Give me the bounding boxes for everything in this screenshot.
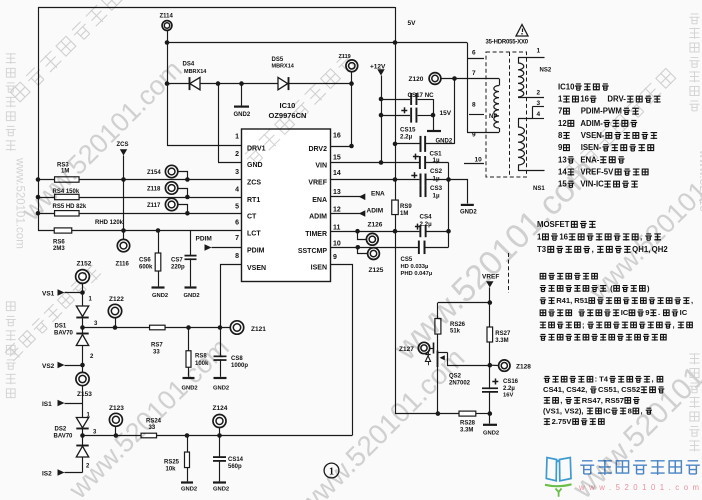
svg-text:1: 1 [558,95,563,104]
svg-text:CS2: CS2 [430,168,443,175]
svg-text:RS57: RS57 [605,396,624,405]
svg-text:CS5: CS5 [401,257,413,263]
svg-text:Z125: Z125 [369,267,384,274]
svg-text:CS15: CS15 [400,127,416,134]
svg-text:RS47,: RS47, [582,396,603,405]
svg-text:RS7: RS7 [151,343,163,349]
svg-text:PDIM-PWM: PDIM-PWM [581,107,622,116]
svg-text:GND2: GND2 [460,209,477,215]
svg-text:1µ: 1µ [433,192,440,199]
svg-text:8: 8 [628,406,632,415]
svg-text:2.2µ: 2.2µ [420,221,433,228]
svg-text:CS42,: CS42, [566,385,587,394]
svg-text:RS25: RS25 [164,459,180,465]
svg-text:T4: T4 [599,375,609,384]
svg-text:RHD 120k: RHD 120k [95,220,124,226]
svg-text:3.3M: 3.3M [460,428,473,434]
svg-text:8: 8 [558,131,563,140]
svg-text:2.2µ: 2.2µ [400,134,413,141]
svg-text:ENA: ENA [312,197,327,204]
svg-text:R51: R51 [574,296,589,305]
svg-text:,: , [560,396,562,405]
svg-text:Z121: Z121 [251,326,266,333]
svg-text:CS6: CS6 [139,258,151,264]
svg-text:CS4: CS4 [420,214,433,221]
svg-text:CS14: CS14 [228,457,244,463]
svg-text:2.75V: 2.75V [552,417,573,426]
svg-text:560p: 560p [228,464,242,470]
svg-text:11: 11 [333,225,341,232]
svg-text:3: 3 [537,100,541,107]
svg-text:15V: 15V [440,110,452,117]
svg-text:Z114: Z114 [160,14,174,20]
svg-text:.: . [658,308,660,317]
svg-text:GND2: GND2 [483,430,499,436]
svg-text:IC: IC [680,308,688,317]
svg-text:BAV70: BAV70 [54,434,74,440]
svg-text:RS6: RS6 [53,239,65,245]
svg-text:Z118: Z118 [147,186,161,192]
svg-text:VIN: VIN [315,163,327,170]
svg-text:16: 16 [333,133,341,140]
svg-text:Z122: Z122 [109,296,124,303]
svg-text:1µ: 1µ [433,175,440,182]
svg-text:DRV2: DRV2 [308,146,327,153]
svg-text:4: 4 [537,111,541,118]
svg-text:8: 8 [235,253,239,260]
svg-text:IS1: IS1 [42,401,52,408]
svg-text:10k: 10k [166,466,177,472]
svg-text:10: 10 [333,241,341,248]
svg-text:7: 7 [558,107,562,116]
svg-text:CS51,: CS51, [598,385,619,394]
svg-text:9: 9 [558,143,563,152]
svg-text:Z152: Z152 [77,261,92,268]
svg-text:,: , [673,320,675,329]
svg-text:GND2: GND2 [181,487,197,493]
svg-text:2M3: 2M3 [53,246,65,252]
svg-text:RT1: RT1 [247,197,260,204]
svg-text:2: 2 [235,151,239,158]
svg-text:1M: 1M [400,211,408,217]
svg-text:3: 3 [235,169,239,176]
svg-text:CS16: CS16 [503,379,519,385]
svg-text::: : [595,375,598,384]
svg-text:4: 4 [235,187,239,194]
svg-text:9: 9 [333,254,337,261]
svg-text:5: 5 [235,203,239,210]
svg-text:1µ: 1µ [433,157,440,164]
svg-text:MBRX14: MBRX14 [184,69,207,75]
svg-text:GND2: GND2 [213,487,229,493]
svg-text:PDIM: PDIM [196,236,212,243]
svg-text:PDIM: PDIM [247,248,265,255]
svg-text:PHD 0.047µ: PHD 0.047µ [401,271,433,277]
svg-text:2: 2 [537,90,541,97]
svg-text:DS2: DS2 [55,427,67,433]
svg-text:IC: IC [621,308,629,317]
svg-text:GND2: GND2 [213,386,229,392]
svg-text:15: 15 [333,155,341,162]
svg-text:NP: NP [489,114,497,120]
svg-text:CS3: CS3 [430,185,443,192]
svg-text:GND2: GND2 [152,293,168,299]
svg-text:6: 6 [235,220,239,227]
svg-text:1: 1 [537,48,541,55]
svg-text:T3: T3 [537,245,547,254]
svg-text:1000p: 1000p [231,363,248,369]
svg-text:RS28: RS28 [460,421,476,427]
svg-text:GND: GND [247,162,263,169]
svg-text:IC10: IC10 [558,82,575,91]
svg-text:GND2: GND2 [234,112,251,118]
svg-text:IS2: IS2 [42,471,52,478]
svg-text:ZCS: ZCS [247,180,261,187]
svg-text:R41,: R41, [556,296,572,305]
svg-text:ADIM-: ADIM- [580,119,603,128]
svg-text:CS7: CS7 [171,258,183,264]
svg-text:,: , [592,245,594,254]
svg-text:RS9: RS9 [400,204,412,210]
svg-text:16: 16 [559,232,568,241]
svg-text:VREF: VREF [308,180,327,187]
svg-text:10: 10 [475,157,483,164]
svg-text:14: 14 [333,170,341,177]
svg-text:VS1: VS1 [42,291,55,298]
svg-text:VS2: VS2 [42,363,55,370]
svg-text:9: 9 [645,308,649,317]
svg-text:13: 13 [333,189,341,196]
svg-text:Z128: Z128 [516,363,531,370]
svg-text:ISEN: ISEN [311,265,327,272]
svg-text:8: 8 [472,102,476,109]
svg-text:GND2: GND2 [436,138,453,144]
svg-text:SSTCMP: SSTCMP [298,248,328,255]
svg-text:35-HDR055-XX0: 35-HDR055-XX0 [486,40,529,46]
svg-text:GND2: GND2 [184,293,200,299]
svg-text:;: ; [582,320,585,329]
svg-text:16V: 16V [503,393,513,399]
svg-text:Z126: Z126 [368,222,383,229]
svg-text:LCT: LCT [247,231,261,238]
svg-text:ADIM: ADIM [309,214,327,221]
svg-text:,: , [652,375,654,384]
svg-text:DRV-: DRV- [607,95,626,104]
svg-text:7: 7 [472,70,476,77]
svg-text:Z116: Z116 [116,262,130,268]
svg-text:Z154: Z154 [147,170,161,176]
svg-text:9: 9 [472,132,476,139]
svg-text:16: 16 [580,95,589,104]
svg-text:CS41,: CS41, [543,385,564,394]
svg-text:33: 33 [153,350,160,356]
svg-text:5V: 5V [408,20,417,27]
svg-text:ADIM: ADIM [367,208,384,215]
svg-text:DS5: DS5 [272,57,284,63]
svg-text:6: 6 [472,50,476,57]
svg-text:IC: IC [603,406,611,415]
svg-text:DS1: DS1 [55,323,67,329]
svg-text:12: 12 [558,119,567,128]
svg-text:RS27: RS27 [495,331,511,337]
svg-text:NS2: NS2 [540,67,552,73]
svg-text:(VS1,: (VS1, [543,406,562,415]
svg-text:DS4: DS4 [183,62,195,68]
svg-text:600k: 600k [139,264,153,270]
svg-text:CS17 NC: CS17 NC [408,92,435,99]
svg-text:CS52: CS52 [621,385,640,394]
svg-text:1: 1 [235,134,239,141]
svg-text:Z153: Z153 [77,391,92,398]
svg-text:,: , [691,296,693,305]
svg-text:MBRX14: MBRX14 [272,64,295,70]
svg-text:Z123: Z123 [109,405,124,412]
svg-text:+12V: +12V [370,64,386,71]
svg-text:CT: CT [247,213,257,220]
svg-text:CS8: CS8 [231,356,243,362]
svg-text:HD 0.033µ: HD 0.033µ [401,264,429,270]
svg-text:220p: 220p [171,264,185,270]
svg-text:Z117: Z117 [147,203,161,209]
svg-text:12: 12 [333,207,341,214]
svg-text:VS2),: VS2), [564,406,583,415]
svg-text:TIMER: TIMER [305,231,327,238]
svg-text:BAV70: BAV70 [54,330,74,336]
svg-text:2.2µ: 2.2µ [503,386,515,392]
svg-text:Z120: Z120 [409,76,424,83]
svg-text:VSEN: VSEN [247,265,266,272]
svg-text:ENA: ENA [371,191,385,198]
svg-text:3.3M: 3.3M [495,338,508,344]
svg-text:7: 7 [235,235,239,242]
svg-text:Z124: Z124 [213,405,228,412]
